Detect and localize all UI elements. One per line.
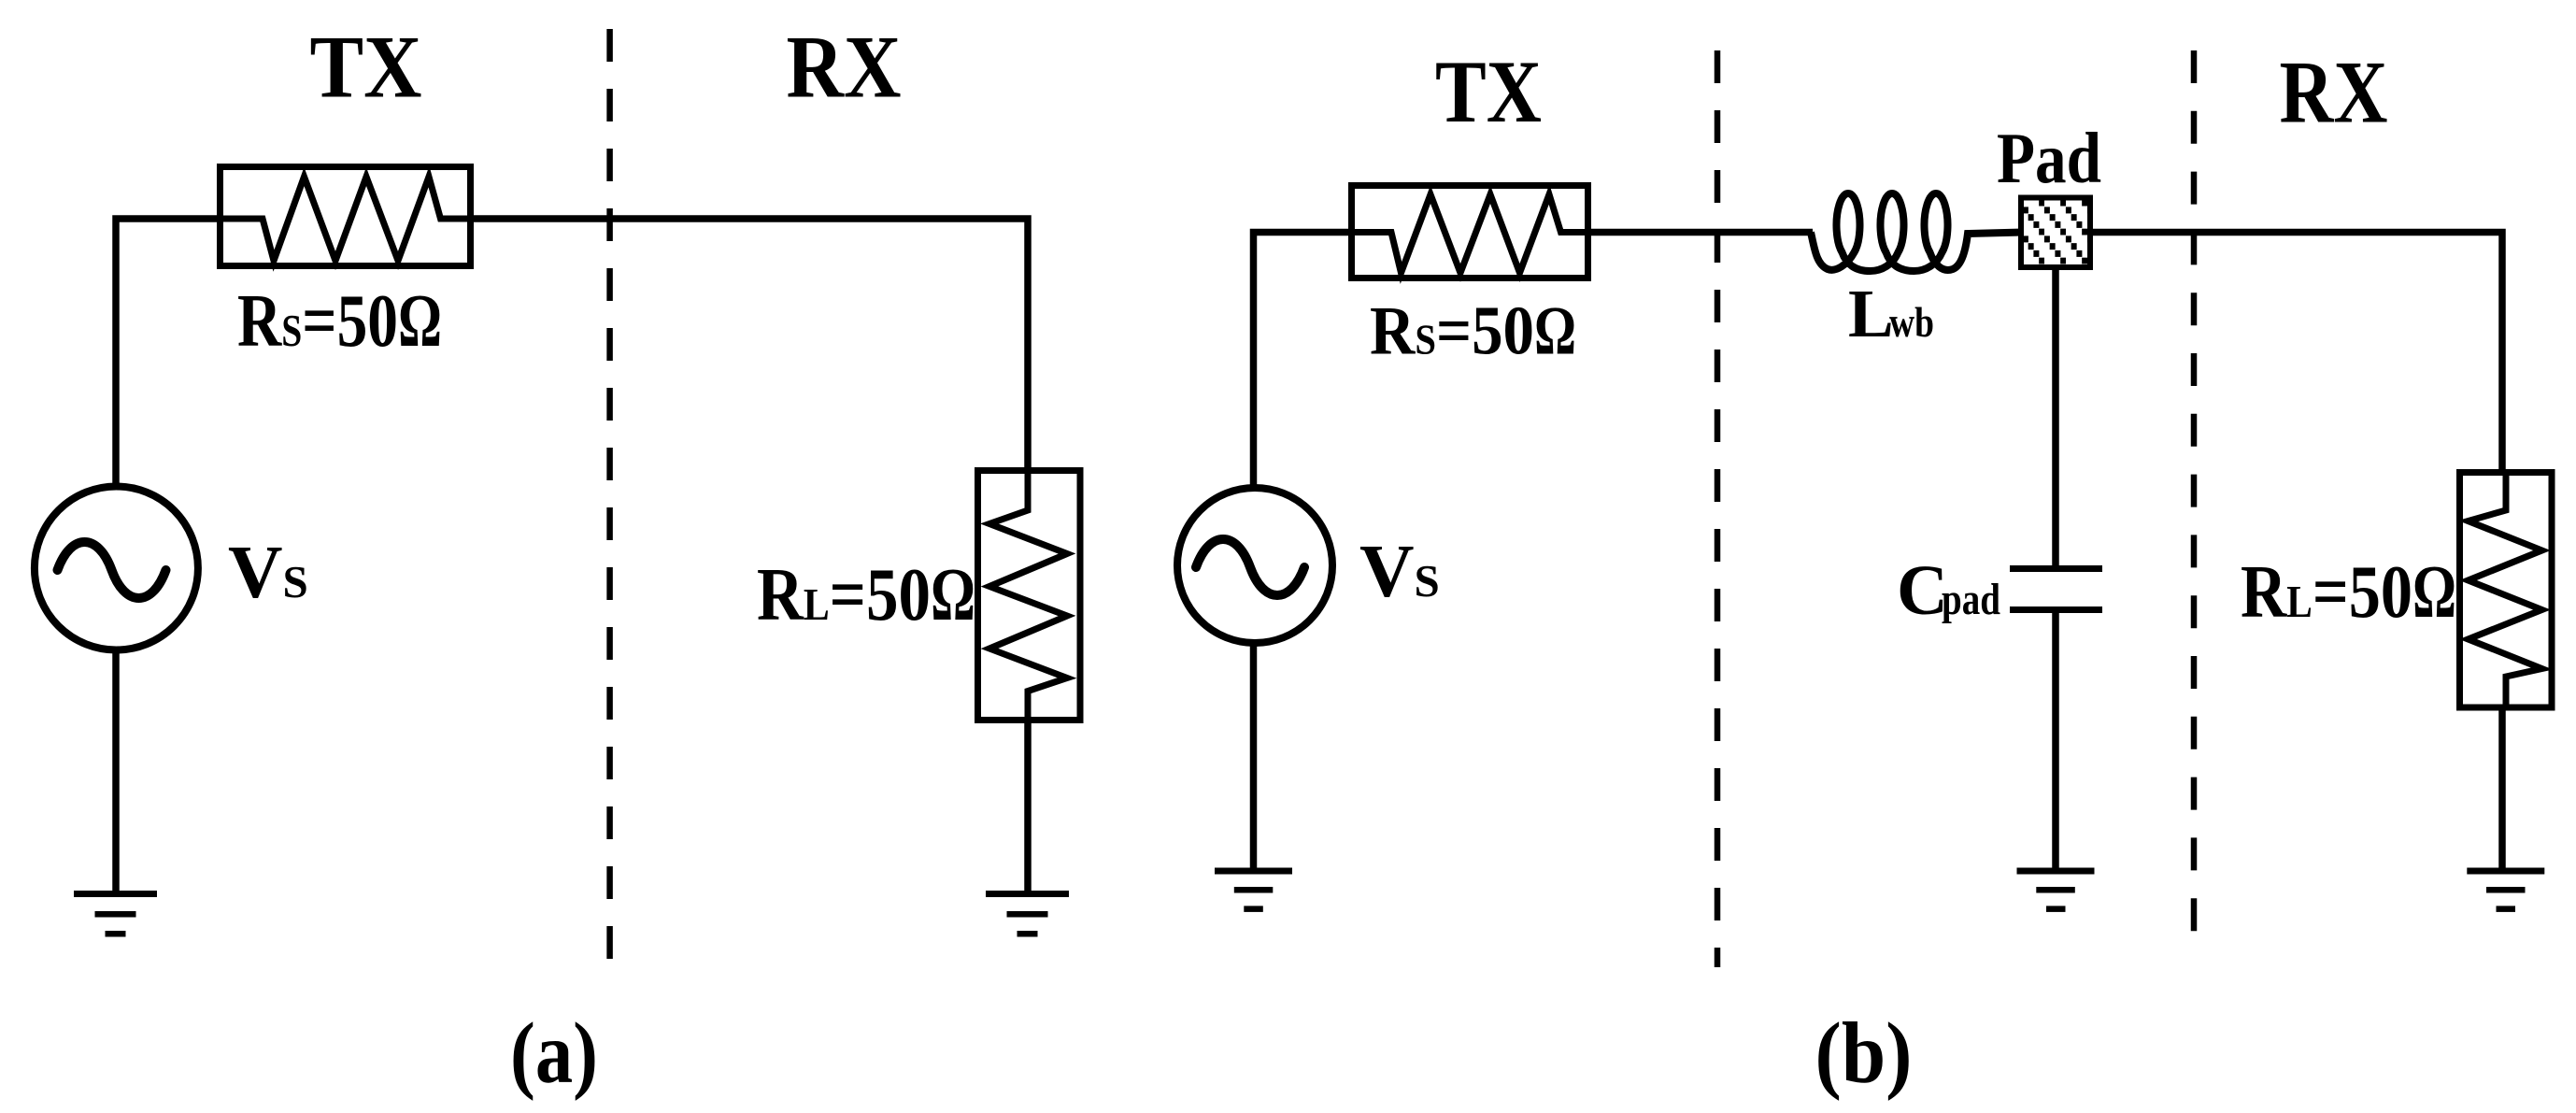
resistor RL (b): [2460, 473, 2553, 708]
ground below RL (b): [2467, 868, 2544, 912]
svg-text:(a): (a): [510, 1006, 598, 1102]
svg-text:(b): (b): [1815, 1006, 1913, 1102]
svg-text:RS=50: RS=50: [1370, 293, 1534, 370]
resistor RL (a): [978, 471, 1081, 721]
inductor Lwb (b): [1811, 193, 2021, 271]
svg-text:TX: TX: [310, 18, 422, 117]
wire RL to ground (a): [1024, 721, 1032, 891]
voltage source VS (b): [1177, 488, 1332, 643]
svg-text:Ω: Ω: [398, 278, 442, 363]
wire RS to inductor (b): [1588, 229, 1813, 236]
wire pad to capacitor Cpad (b): [2052, 266, 2059, 565]
svg-text:RL=50: RL=50: [2241, 549, 2412, 634]
svg-text:VS: VS: [228, 530, 308, 614]
svg-text:RS=50: RS=50: [237, 278, 398, 363]
ground below VS (a): [74, 891, 157, 937]
svg-text:pad: pad: [1942, 575, 2000, 624]
pad (hatched) (b): [2021, 198, 2090, 268]
TX boundary dashed line (b): [1715, 50, 1721, 967]
ground below RL (a): [986, 891, 1069, 937]
resistor RS (a): [221, 167, 471, 266]
svg-text:L: L: [1848, 276, 1894, 351]
wire VS to resistor RS (b): [1254, 233, 1352, 490]
svg-text:VS: VS: [1359, 529, 1440, 613]
ground below VS (b): [1215, 868, 1292, 912]
wire RS to RL (a): [471, 219, 1028, 470]
svg-text:RL=50: RL=50: [757, 552, 931, 636]
TX/RX boundary dashed line (a): [606, 29, 613, 963]
ground below Cpad (b): [2017, 868, 2095, 912]
svg-text:RX: RX: [2280, 43, 2388, 142]
wire VS to ground (b): [1250, 641, 1258, 868]
wire capacitor to ground (b): [2052, 613, 2059, 868]
wire pad to RL (b): [2090, 233, 2502, 473]
wire VS to resistor RS (a): [116, 219, 220, 485]
svg-text:TX: TX: [1435, 42, 1542, 141]
svg-text:C: C: [1897, 551, 1948, 630]
svg-text:Ω: Ω: [2412, 549, 2456, 634]
RX boundary dashed line (b): [2191, 50, 2198, 933]
svg-text:wb: wb: [1889, 298, 1934, 346]
svg-text:Pad: Pad: [1997, 118, 2101, 198]
capacitor Cpad (b): [2010, 565, 2102, 613]
voltage source VS (a): [35, 487, 198, 650]
wire RL to ground (b): [2498, 707, 2506, 868]
svg-text:Ω: Ω: [1534, 293, 1576, 370]
svg-text:RX: RX: [787, 18, 902, 117]
svg-text:Ω: Ω: [931, 552, 975, 636]
resistor RS (b): [1352, 186, 1589, 278]
wire VS to ground (a): [112, 649, 120, 891]
